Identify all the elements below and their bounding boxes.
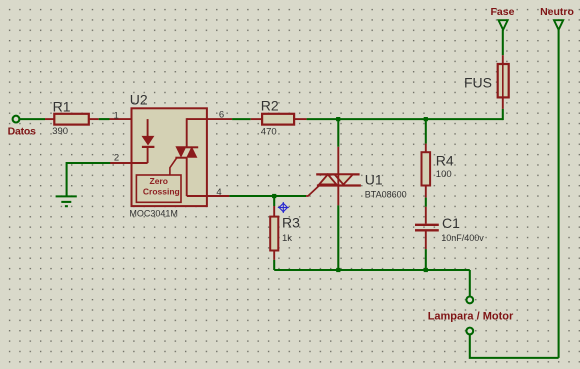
triac U1 MT2 pin [337,147,339,175]
svg-text:Crossing: Crossing [143,187,180,197]
svg-text:U1: U1 [365,171,383,187]
wire R2 to fuse (main AC rail) [307,118,503,120]
U2 internal LED anode wire [147,119,149,136]
U2 pin 4 line [187,195,230,197]
resistor R3 [270,206,278,260]
svg-text:6: 6 [219,110,224,121]
wire rail to R4 [425,119,427,144]
svg-text:2: 2 [114,153,119,164]
junction C1 bottom [424,268,428,272]
U2 internal triac top bar [186,146,199,148]
svg-text:Zero: Zero [150,176,168,186]
junction U1 bottom [336,268,340,272]
wire bottom rail [274,269,470,271]
svg-text:FUS: FUS [464,75,492,91]
U2 internal triac right triangle [186,146,197,158]
svg-text:C1: C1 [442,215,460,231]
svg-text:390: 390 [52,126,68,137]
terminal lamp lower circle [466,328,473,335]
svg-text:R2: R2 [261,98,279,114]
terminal lamp upper circle [466,297,473,304]
U2 internal detector wire bottom [186,158,188,196]
svg-text:U2: U2 [130,92,148,108]
terminal Datos (input circle) [13,116,20,123]
U2 internal triac left triangle [175,146,186,157]
junction at R2/U1 [336,117,340,121]
svg-text:Lampara / Motor: Lampara / Motor [428,311,514,323]
op-amp U2 pin 1 line [110,118,148,120]
wire C1 to bottom rail [425,249,427,270]
fuse FUS [498,55,509,109]
svg-text:10nF/400v: 10nF/400v [441,233,484,243]
svg-text:4: 4 [216,187,221,198]
triac U1 [316,174,361,186]
wire U2 pin4 to gate [229,195,306,197]
wire pin 2 to ground [67,163,111,197]
ground [56,196,77,206]
resistor R2 [251,114,307,125]
svg-text:MOC3041M: MOC3041M [129,209,178,219]
wire R4 to C1 [425,198,427,207]
zero crossing box [136,175,181,202]
wire R3 bottom [273,260,275,270]
resistor R1 [45,114,99,125]
origin marker (blue) [278,202,289,213]
optocoupler U2 body MOC3041M [132,108,207,206]
U2 internal detector wire top [186,118,188,147]
svg-text:100: 100 [436,169,452,180]
resistor R4 [422,144,431,198]
wire Neutro down right side [558,30,560,358]
U2 internal triac bottom bar [175,157,187,159]
junction at R4 [424,117,428,121]
U2 internal LED cathode wire [147,147,149,163]
wire bottom rail corner down [469,270,471,297]
wire Datos to R1 [19,118,45,120]
svg-text:Datos: Datos [8,126,37,138]
wire fuse to rail [502,109,504,120]
wire lamp to neutro [470,334,559,358]
svg-text:470: 470 [261,127,277,138]
svg-text:1: 1 [114,110,119,121]
svg-text:Neutro: Neutro [540,6,574,18]
svg-text:R4: R4 [436,152,454,168]
U2 internal LED diode [142,136,155,146]
terminal Neutro [554,20,563,30]
svg-text:R1: R1 [53,98,71,114]
triac U1 gate pin [306,186,319,196]
svg-text:Fase: Fase [491,6,515,18]
wire U1 MT2 from rail [337,119,339,147]
wire Fase to fuse [502,30,504,55]
svg-text:1k: 1k [282,233,292,244]
U2 pin 2 line [109,162,147,164]
junction at R3 top [272,194,276,198]
wire U2 pin6 to R2 [232,118,251,120]
wire R3 top [273,196,275,206]
wire U1 MT1 to bottom rail [337,205,339,270]
wire R1 to U2 pin 1 [99,118,110,120]
U2 internal gate wire [170,158,177,176]
capacitor C1 [415,207,439,249]
svg-text:BTA08600: BTA08600 [365,190,407,200]
terminal Fase [499,20,508,30]
U2 pin 6 line [187,118,232,120]
svg-text:R3: R3 [282,215,300,231]
triac U1 MT1 pin [337,186,339,206]
